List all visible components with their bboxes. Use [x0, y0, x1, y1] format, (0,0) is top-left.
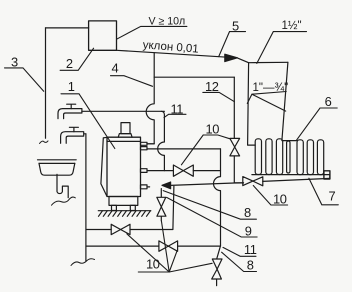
- wire cold water pipe down: [85, 134, 87, 261]
- radiator left fin 3: [276, 139, 282, 175]
- wire S-pipe vertical with hump: [214, 149, 221, 246]
- label 8 bottom leader: [222, 252, 257, 271]
- flow arrow on line 5: [225, 54, 238, 61]
- wire pipe 12 drop: [233, 77, 235, 183]
- radiator left fin 1: [255, 139, 261, 175]
- sink drain break squiggle: [52, 197, 76, 205]
- wire tank feed horizontal: [46, 27, 89, 29]
- svg-text:10: 10: [273, 191, 287, 206]
- wire radiator bottom manifold top line: [252, 175, 330, 178]
- drain valve at boiler: [157, 189, 166, 221]
- wire return into valve: [234, 182, 243, 184]
- boiler top band: [107, 140, 141, 142]
- faucet lower body and spout: [61, 132, 86, 144]
- wire boiler stub2 line to S-pipe: [147, 148, 221, 150]
- label 12 leader: [203, 92, 235, 101]
- boiler leg left: [112, 205, 117, 210]
- boiler stub 4: [141, 185, 148, 189]
- svg-text:10: 10: [206, 121, 220, 136]
- wire sloped main line 5: [117, 50, 249, 62]
- wire top header pipe 12: [154, 76, 234, 78]
- label 1 leader: [61, 94, 115, 149]
- label 8 top leader: [163, 191, 256, 220]
- wire riser pipe 3 vertical: [45, 28, 47, 138]
- faucet upper body and spout: [58, 109, 82, 119]
- wire pipe 11 drop with crossing hump: [158, 111, 165, 170]
- boiler leg right: [130, 205, 135, 210]
- ground line: [98, 210, 151, 212]
- radiator right fin 1: [297, 140, 303, 175]
- boiler stub 2: [141, 147, 148, 150]
- wire radiator bottom return line 7: [263, 178, 330, 181]
- label 10 bottom-right leader: [253, 186, 287, 206]
- flow arrow return to boiler: [162, 182, 171, 189]
- label 1-34 leader: [247, 92, 286, 112]
- svg-text:11: 11: [244, 242, 257, 257]
- label 2 leader: [60, 48, 94, 70]
- label 9 leader: [167, 197, 258, 237]
- faucet upper handle: [67, 104, 76, 108]
- sink bowl: [39, 163, 75, 175]
- valve 10 on branch y229: [111, 224, 130, 234]
- faucet lower handle: [69, 127, 78, 131]
- wire break squiggle cold pipe: [71, 259, 95, 266]
- label 11 top leader: [164, 114, 186, 117]
- wire return line B to boiler: [170, 183, 243, 186]
- label 3 leader: [5, 68, 44, 91]
- wire left drop pipe to radiator 6: [248, 63, 256, 145]
- svg-text:8: 8: [247, 257, 254, 272]
- wire S-pipe corner down to drain valve: [217, 246, 221, 259]
- wire top edge of supply drop: [249, 61, 288, 63]
- radiator right end block: [324, 171, 330, 179]
- svg-text:1: 1: [68, 79, 75, 94]
- svg-text:2: 2: [66, 56, 73, 71]
- label 10 bottom-left leaders: [127, 221, 212, 272]
- svg-text:уклон 0,01: уклон 0,01: [142, 39, 199, 55]
- ground hatching: [99, 211, 151, 217]
- svg-text:1½": 1½": [282, 20, 302, 32]
- wire cold branch y229: [86, 186, 174, 229]
- svg-text:5: 5: [232, 18, 239, 33]
- valve 10 on line A: [173, 165, 193, 176]
- label V leader: [117, 26, 187, 39]
- label 6 leader: [296, 108, 337, 140]
- drain valve bottom vertical: [212, 259, 222, 286]
- svg-text:10: 10: [146, 256, 160, 271]
- radiator left fin 4: [287, 141, 290, 173]
- wire right drop pipe to radiator: [282, 62, 297, 140]
- sink drain trap: [57, 174, 68, 197]
- label 1half leader: [257, 32, 307, 64]
- sink rim: [38, 160, 77, 164]
- label 4 leader: [111, 76, 153, 87]
- svg-text:8: 8: [244, 205, 251, 220]
- svg-text:7: 7: [329, 188, 336, 203]
- wire line A boiler to valve: [147, 170, 221, 172]
- boiler left panel: [101, 137, 107, 196]
- boiler stub 1: [141, 142, 148, 145]
- svg-text:3: 3: [11, 55, 18, 70]
- valve 10 at radiator return: [243, 177, 263, 186]
- valve 10 on cold line y246: [159, 241, 178, 251]
- svg-text:9: 9: [245, 224, 252, 239]
- svg-text:1"—¾": 1"—¾": [253, 82, 289, 94]
- wire bottom cold line y246: [86, 245, 221, 247]
- label 10 top leaders: [181, 135, 229, 165]
- labels and leaders: [5, 26, 339, 272]
- radiator right fin 3: [317, 140, 323, 175]
- svg-text:V ≥ 10л: V ≥ 10л: [149, 16, 186, 28]
- boiler stub 3: [141, 169, 148, 173]
- wire stub1 to riser 4: [147, 143, 154, 145]
- boiler base: [109, 197, 138, 206]
- svg-text:4: 4: [112, 61, 119, 76]
- boiler chimney knob: [121, 123, 130, 134]
- boiler body 1: [107, 137, 141, 196]
- radiator left fin 2: [266, 139, 272, 175]
- wire hot riser 4 with crossing hump: [146, 53, 154, 144]
- wire stub4 short: [147, 186, 150, 188]
- label 7 leader: [309, 178, 338, 205]
- wire hot water line to faucets 11: [82, 110, 164, 112]
- boiler chimney flange: [118, 134, 132, 138]
- radiator right fin 2: [307, 140, 313, 175]
- expansion tank 2: [89, 21, 117, 50]
- label 11 bottom leader: [223, 247, 256, 256]
- valve 10 on pipe 12: [230, 138, 240, 156]
- label 5 leader: [219, 32, 246, 57]
- wire break squiggle riser 3: [40, 141, 49, 144]
- svg-text:6: 6: [325, 94, 332, 109]
- svg-text:11: 11: [171, 102, 184, 117]
- svg-text:12: 12: [205, 79, 219, 94]
